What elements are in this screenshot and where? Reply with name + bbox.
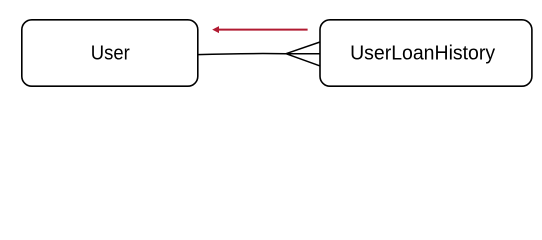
red arrow pointing left xyxy=(212,26,307,33)
crow's foot (many) at UserLoanHistory xyxy=(286,42,320,66)
svg-text:User: User xyxy=(91,43,130,65)
entity box UserLoanHistory xyxy=(320,20,532,86)
wire: connector from User to crow's foot apex xyxy=(198,54,286,55)
svg-text:UserLoanHistory: UserLoanHistory xyxy=(350,43,495,65)
entity box User xyxy=(22,20,198,86)
